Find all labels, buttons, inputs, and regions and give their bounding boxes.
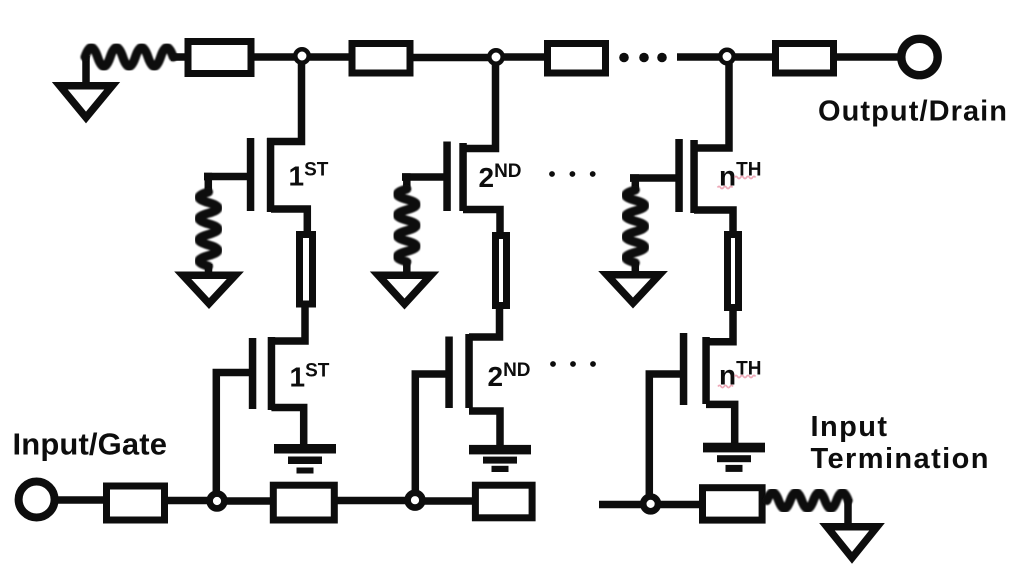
inductor L-drain-3 (box)	[548, 44, 606, 74]
wire	[425, 497, 475, 505]
resistor R-deg-n (vertical box)	[728, 235, 739, 308]
ground (stage2 bias)	[378, 275, 431, 304]
resistor R-bias-1 (wavy vertical)	[199, 192, 218, 266]
ground (stage-n source)	[703, 443, 765, 472]
node Dn	[720, 50, 733, 63]
transistor Q2a (cascode) channel	[459, 143, 467, 211]
wire	[735, 53, 778, 61]
wire source Q2b to ground	[469, 411, 500, 446]
transistor Q2b gate bar	[445, 337, 453, 409]
transistor Q1b gate bar	[249, 338, 256, 409]
resistor R-deg-1 (vertical box)	[300, 235, 313, 305]
transistor Q1a (cascode) channel	[267, 138, 275, 212]
ellipsis dots upper FET row	[549, 171, 596, 177]
spellcheck squiggle under upper TH	[735, 176, 756, 178]
inductor L-drain-1 (box)	[188, 42, 251, 74]
terminal Input/Gate	[19, 482, 55, 518]
terminal Output/Drain	[901, 39, 937, 75]
wire resistor to Qnb drain	[706, 310, 733, 342]
transistor Q2a gate bar	[443, 142, 451, 212]
svg-text:Input: Input	[811, 411, 888, 443]
wire resistor to Q1b drain	[272, 306, 306, 341]
wire stub to ground	[632, 262, 640, 275]
resistor R-bias-2 (wavy vertical)	[397, 189, 416, 262]
wire	[834, 53, 899, 61]
inductor L-gate-n (box)	[703, 488, 763, 520]
inductor L-drain-n (box)	[776, 44, 834, 74]
ground (stage-n bias)	[607, 275, 660, 303]
wire source Qnb to ground	[706, 404, 735, 445]
wire bias corner Qna	[630, 178, 635, 191]
wire	[54, 496, 108, 504]
wire stub to ground	[205, 264, 213, 276]
resistor R-term (wavy)	[767, 493, 848, 509]
spellcheck squiggle under lower TH	[735, 375, 756, 377]
ground (stage1 source)	[274, 444, 336, 474]
wire gate Q2a	[402, 173, 446, 181]
ground (stage1 bias)	[183, 275, 236, 303]
inductor L-gate-3 (box)	[475, 485, 532, 518]
wire corner to ground	[844, 499, 852, 527]
wire	[171, 53, 192, 61]
resistor R-drain-bias (wavy)	[85, 48, 173, 67]
ground (input termination)	[827, 527, 877, 558]
wire	[310, 53, 351, 61]
ellipsis dots top rail	[619, 53, 667, 63]
wire	[227, 497, 274, 505]
wire drain drop stage-n	[694, 64, 729, 149]
inductor L-drain-2 (box)	[352, 44, 410, 74]
node D2	[489, 50, 502, 63]
transistor Qnb (common source) channel	[702, 337, 710, 404]
wire	[599, 501, 641, 509]
node Gn	[643, 497, 658, 512]
transistor Qna gate bar	[675, 139, 683, 212]
wire drain drop stage2	[463, 64, 496, 149]
wire stub to ground	[403, 260, 411, 276]
inductor L-gate-1 (box)	[107, 486, 165, 520]
spellcheck squiggle under lower n	[718, 385, 733, 387]
ground (top-left drain bias)	[60, 86, 112, 118]
resistor R-bias-n (wavy vertical)	[626, 190, 645, 263]
wire	[677, 53, 720, 61]
wire gate Q2b down to gate line	[415, 374, 450, 491]
transistor Q1a gate bar	[247, 138, 255, 211]
spellcheck squiggle under upper n	[718, 186, 733, 188]
wire resistor to Q2b drain	[469, 308, 500, 337]
wire source Q2a to resistor	[463, 210, 500, 237]
ellipsis dots lower FET row	[550, 361, 596, 367]
wire bias corner Q2a	[402, 177, 407, 190]
wire source Q1b to ground	[271, 408, 303, 447]
wire stub to top-left ground	[82, 56, 90, 86]
wire	[504, 53, 547, 61]
node G2	[408, 493, 423, 508]
wire gate Q1b down to gate line	[216, 373, 252, 493]
wire	[335, 497, 406, 505]
wire bias corner Q1a	[204, 177, 208, 194]
transistor Qnb gate bar	[680, 333, 688, 405]
svg-text:Output/Drain: Output/Drain	[818, 96, 1007, 128]
svg-text:Input/Gate: Input/Gate	[13, 427, 168, 462]
inductor L-gate-2 (box)	[273, 485, 334, 520]
wire gate Qna	[630, 174, 678, 182]
transistor Q2b (common source) channel	[465, 334, 473, 408]
wire drain drop stage1	[267, 64, 302, 142]
wire	[660, 501, 703, 509]
ground (stage2 source)	[469, 445, 531, 472]
wire source Q1a to resistor	[271, 209, 307, 233]
wire	[411, 54, 489, 62]
wire gate Q1a	[204, 173, 250, 181]
node D1	[295, 49, 308, 62]
wire gate Qnb down to gate line	[649, 374, 680, 495]
transistor Q1b (common source) channel	[268, 337, 276, 410]
wire	[164, 497, 208, 505]
resistor R-deg-2 (vertical box)	[496, 236, 507, 306]
node G1	[210, 494, 225, 509]
svg-text:Termination: Termination	[811, 443, 989, 475]
transistor Qna (cascode) channel	[690, 140, 698, 213]
wire source Qna to resistor	[694, 210, 733, 234]
wire	[252, 53, 295, 61]
